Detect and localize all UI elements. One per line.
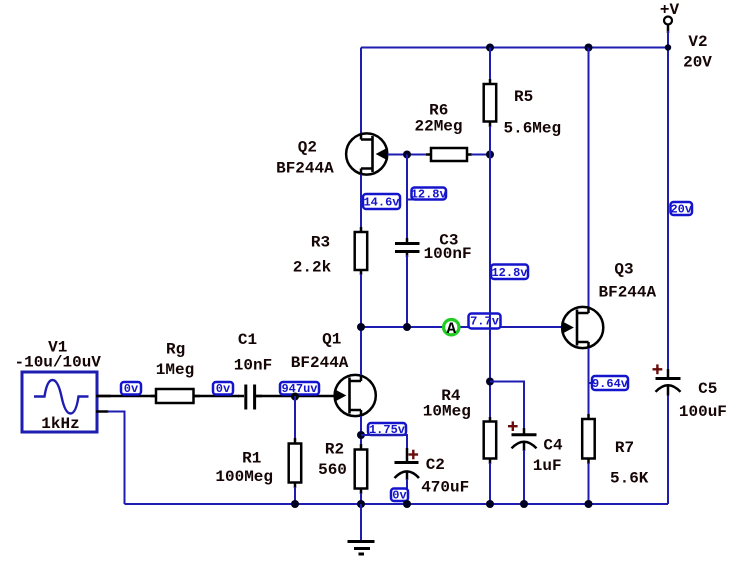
voltage label 14.6v [363, 194, 400, 210]
svg-text:5.6Meg: 5.6Meg [503, 120, 561, 138]
resistor R2 [355, 444, 368, 494]
svg-text:+V: +V [660, 1, 680, 19]
wire: node to R1 [294, 396, 296, 439]
svg-text:BF244A: BF244A [598, 284, 656, 302]
capacitor C4 [512, 428, 537, 451]
svg-text:BF244A: BF244A [276, 160, 334, 178]
wire: V1 to Rg (black input net) [96, 395, 157, 398]
junction: C4 bottom on rail [520, 500, 528, 508]
wire: gate line from Q1 drain to Q3 gate [361, 326, 563, 328]
capacitor C2 [395, 448, 420, 480]
wire: C1 to Q1 gate (black input net) [256, 395, 336, 398]
svg-text:12.8v: 12.8v [491, 266, 527, 280]
svg-text:Rg: Rg [166, 341, 185, 359]
power terminal +V [664, 17, 672, 48]
svg-text:V2: V2 [688, 33, 707, 51]
wire: R4 to ground rail [489, 463, 491, 504]
voltage label 1.75v [368, 423, 406, 437]
junction: R5/R6 node [486, 151, 494, 159]
svg-text:14.6v: 14.6v [363, 196, 399, 210]
resistor R7 [582, 414, 595, 464]
pin: V1 + terminal lead [96, 395, 111, 398]
voltage label 947uv [280, 382, 319, 396]
node A [444, 320, 459, 338]
wire: Q2 drain from top rail [360, 48, 362, 135]
capacitor C3 [395, 155, 420, 328]
wire: C5 bottom to ground rail [667, 394, 669, 504]
voltage label 20v [670, 202, 692, 216]
resistor R5 [484, 79, 497, 127]
resistor R4 [484, 417, 497, 464]
wire: R7 to ground rail [588, 463, 590, 504]
plus sign C2 [409, 450, 419, 460]
svg-text:470uF: 470uF [421, 479, 469, 497]
svg-text:1kHz: 1kHz [41, 415, 79, 433]
voltage label 12.8v (Q2 gate) [407, 187, 447, 201]
svg-text:R1: R1 [242, 450, 261, 468]
wire: top +V supply rail [361, 47, 668, 49]
junction: top rail at Q3 drain [585, 44, 593, 52]
wire: 1.75v node to C2 [361, 435, 407, 449]
wire: R1 to ground rail [294, 487, 296, 504]
voltage label 0v (C2 bottom) [391, 489, 408, 503]
svg-text:C4: C4 [543, 437, 563, 455]
svg-text:100Meg: 100Meg [215, 468, 273, 486]
voltage label 0v (after Rg) [213, 382, 233, 396]
wire: R4 node to C4 [490, 382, 524, 430]
voltage label 12.8v (bootstrap) [491, 265, 528, 281]
svg-text:C5: C5 [698, 380, 717, 398]
wire: Q2 source down to R3 [360, 175, 362, 234]
resistor R3 [355, 227, 368, 275]
svg-text:10Meg: 10Meg [423, 403, 471, 421]
wire: V1 lower terminal to ground rail [108, 412, 125, 505]
junction: Q1 drain / R3 node [357, 323, 365, 331]
svg-text:5.6K: 5.6K [610, 470, 649, 488]
junction: R7 bottom on rail [585, 500, 593, 508]
wire: C4 to ground rail [523, 450, 525, 504]
svg-text:1uF: 1uF [533, 457, 562, 475]
junction: R1 bottom on rail [291, 500, 299, 508]
svg-text:9.64v: 9.64v [592, 377, 628, 391]
wire: R3 to Q1 drain node [360, 274, 362, 327]
capacitor C1 [238, 385, 262, 410]
junction: Q1 source node (1.75v) [357, 431, 365, 439]
svg-text:C1: C1 [238, 331, 257, 349]
voltage label 0v (V1 output) [121, 382, 141, 396]
transistor Q2 (BF244A JFET, mirrored) [346, 133, 387, 175]
svg-text:C2: C2 [426, 456, 445, 474]
junction: C3 bottom node [403, 323, 411, 331]
wire: right supply drop to C5 [667, 48, 669, 372]
junction: R4 bottom on rail [486, 500, 494, 508]
svg-text:R3: R3 [311, 234, 330, 252]
junction: R4/C4 node [486, 378, 494, 386]
wire: Q1 drain up to node [360, 327, 362, 375]
svg-text:20V: 20V [683, 54, 712, 72]
svg-text:R5: R5 [514, 88, 533, 106]
wire: R5 to R6 node [489, 126, 491, 155]
svg-text:-10u/10uV: -10u/10uV [14, 354, 101, 372]
svg-text:10nF: 10nF [234, 357, 272, 375]
wire: R5/R6 node down through to R4 [489, 155, 491, 420]
wire: Q1 source down [360, 416, 362, 445]
svg-text:22Meg: 22Meg [414, 118, 462, 136]
capacitor C5 [656, 369, 681, 396]
junction: R2 bottom on rail [357, 500, 365, 508]
svg-text:BF244A: BF244A [291, 354, 349, 372]
wire: R6 to R5 node [471, 154, 490, 156]
plus sign C5 [653, 364, 663, 374]
wire: rail to Q3 drain [588, 48, 590, 309]
svg-text:2.2k: 2.2k [293, 259, 332, 277]
wire: Rg to C1 (black input net) [193, 395, 239, 398]
svg-text:100uF: 100uF [679, 403, 727, 421]
svg-text:Q3: Q3 [614, 261, 633, 279]
junction: Q2 gate / R6 / C3 node [403, 151, 411, 159]
junction: C1/R1/Q1 gate node [291, 393, 299, 401]
svg-text:R2: R2 [325, 441, 344, 459]
junction: top rail at +V corner [665, 44, 671, 50]
wire: Q2 gate to R6/C3 node [388, 154, 428, 156]
transistor Q3 (BF244A JFET) [562, 307, 603, 349]
svg-text:Q1: Q1 [322, 331, 341, 349]
svg-text:20v: 20v [670, 202, 692, 216]
wire: bottom ground rail [125, 503, 669, 505]
junction: top rail at R5 [486, 44, 494, 52]
transistor Q1 (BF244A JFET) [335, 375, 376, 417]
svg-text:0v: 0v [392, 489, 406, 503]
svg-text:560: 560 [318, 461, 347, 479]
plus sign C4 [508, 421, 518, 431]
svg-text:947uv: 947uv [281, 382, 317, 396]
voltage label 9.64v [589, 376, 629, 391]
wire: rail to R5 [489, 48, 491, 81]
svg-text:0v: 0v [124, 382, 138, 396]
svg-text:1Meg: 1Meg [156, 361, 194, 379]
signal source V1 [22, 372, 97, 432]
wire: C2 to ground rail [406, 479, 408, 504]
ground [348, 504, 375, 554]
svg-text:R7: R7 [615, 439, 634, 457]
wire: Q3 source down to R7 [588, 348, 590, 420]
svg-text:100nF: 100nF [424, 245, 472, 263]
pin: V1 - terminal lead [96, 410, 109, 413]
resistor R1 [289, 438, 302, 488]
resistor R6 [426, 148, 472, 161]
junction: C2 bottom on rail [403, 500, 411, 508]
wire: R2 to ground rail [360, 493, 362, 504]
svg-text:7.7v: 7.7v [470, 314, 499, 328]
svg-text:A: A [446, 320, 456, 338]
svg-text:12.8v: 12.8v [411, 187, 447, 201]
voltage label 7.7v [469, 314, 501, 329]
svg-text:0v: 0v [216, 382, 230, 396]
svg-text:Q2: Q2 [298, 139, 317, 157]
resistor Rg [151, 389, 200, 403]
